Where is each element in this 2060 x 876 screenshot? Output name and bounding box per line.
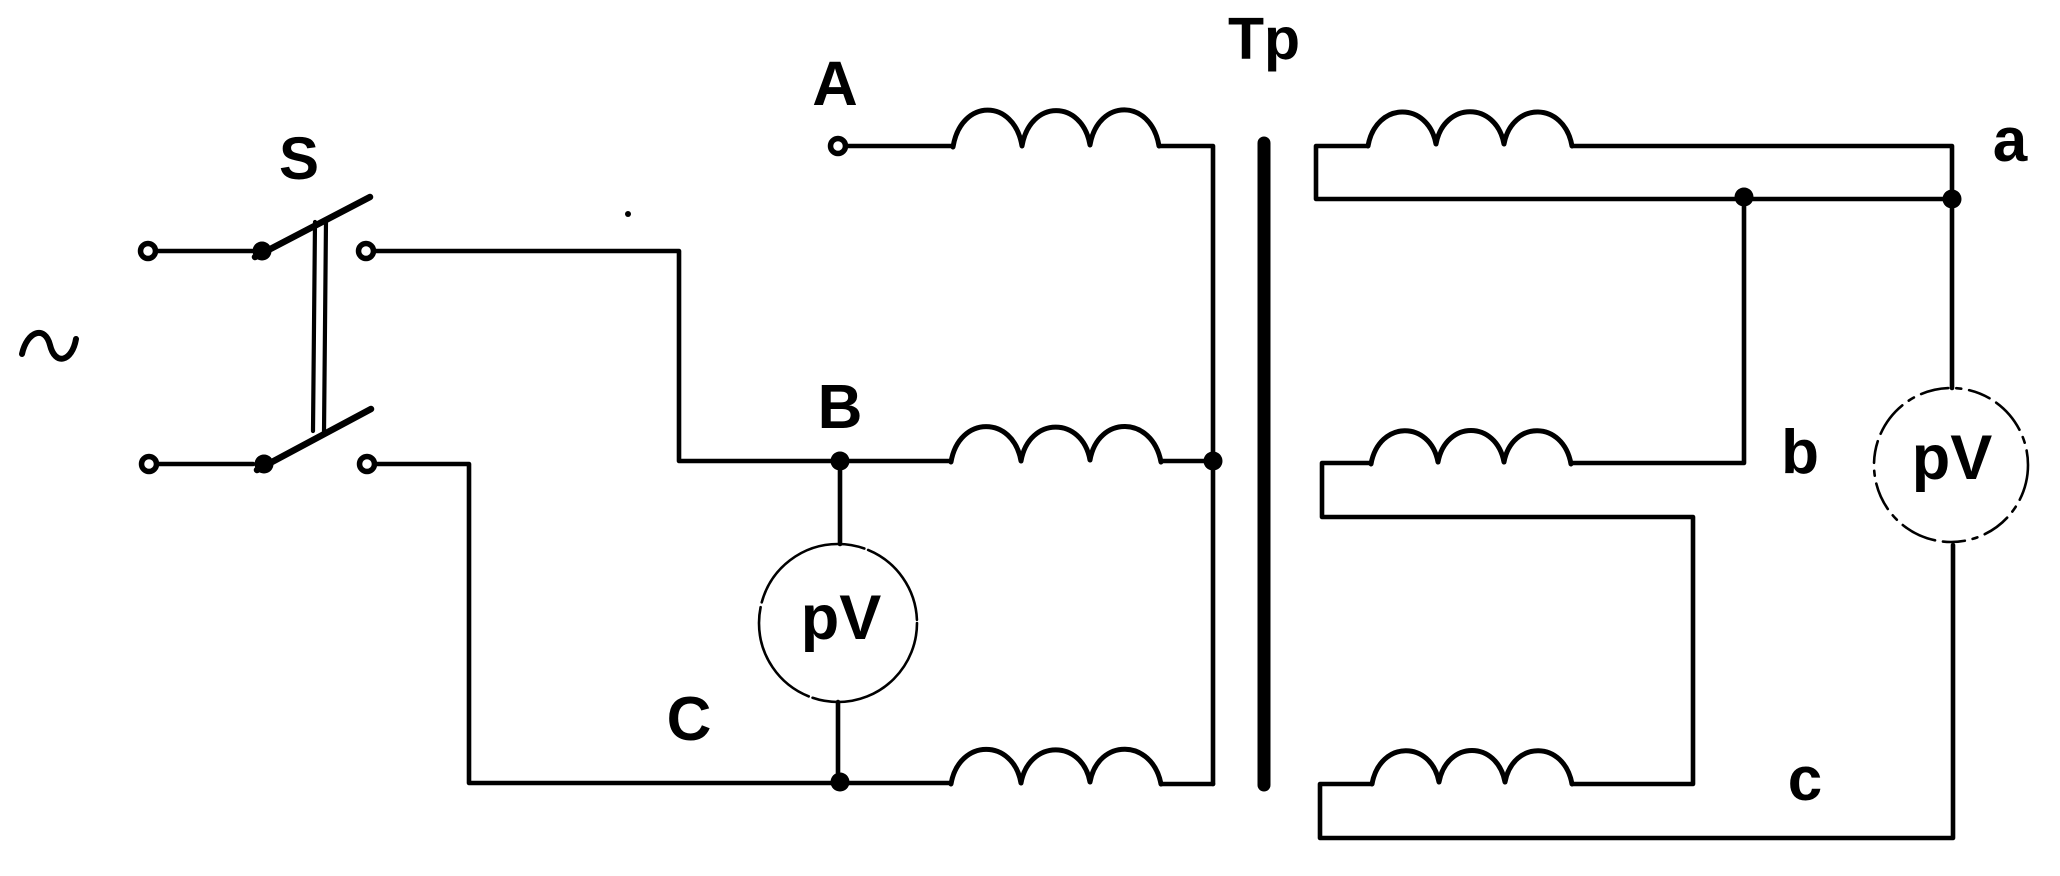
wire — [1571, 199, 1744, 463]
voltmeter pV secondary — [1874, 388, 2028, 542]
wire — [836, 702, 841, 781]
junction dot — [1204, 452, 1223, 471]
switch S lower blade — [257, 409, 371, 470]
terminal: A — [831, 139, 846, 154]
wire — [159, 462, 253, 467]
switch S upper contact dot — [253, 242, 272, 261]
wire — [1950, 199, 1955, 388]
secondary winding c — [1372, 751, 1572, 785]
svg-text:B: B — [818, 373, 863, 442]
primary winding C — [951, 749, 1161, 784]
wire — [1572, 146, 1952, 199]
wire — [838, 461, 843, 544]
terminal: switch lower right — [360, 457, 375, 472]
svg-text:Tp: Tp — [1228, 6, 1300, 72]
wire — [1161, 459, 1213, 464]
wire — [158, 249, 252, 254]
svg-text:S: S — [279, 125, 319, 192]
wire — [1316, 146, 1952, 199]
primary winding B — [951, 426, 1161, 462]
svg-text:A: A — [812, 49, 858, 119]
wire — [1320, 545, 1953, 838]
transformer core Tp — [1258, 143, 1271, 785]
switch S lower contact dot — [255, 455, 274, 474]
wire — [1161, 782, 1213, 787]
svg-text:b: b — [1781, 418, 1819, 487]
svg-text:pV: pV — [801, 583, 882, 653]
terminal: source lower — [142, 457, 157, 472]
svg-text:pV: pV — [1912, 423, 1993, 493]
wire — [1322, 463, 1693, 784]
voltmeter pV primary — [759, 544, 917, 702]
svg-text:C: C — [667, 685, 712, 754]
junction dot — [1735, 188, 1754, 207]
stray ink dot — [625, 211, 631, 217]
node C junction dot — [831, 773, 850, 792]
svg-text:c: c — [1788, 745, 1822, 814]
wire — [377, 464, 951, 783]
primary winding A — [953, 110, 1159, 147]
AC source symbol ~ — [22, 333, 76, 359]
secondary winding a — [1368, 112, 1572, 146]
wire — [1159, 146, 1213, 784]
secondary winding b — [1371, 431, 1571, 465]
terminal: source upper — [141, 244, 156, 259]
wire — [848, 144, 953, 149]
svg-text:a: a — [1993, 106, 2028, 175]
terminal: switch upper right — [359, 244, 374, 259]
switch S linkage bar — [313, 220, 326, 433]
node B junction dot — [831, 452, 850, 471]
junction dot — [1943, 190, 1962, 209]
switch S upper blade — [255, 197, 370, 257]
wire — [376, 251, 951, 461]
